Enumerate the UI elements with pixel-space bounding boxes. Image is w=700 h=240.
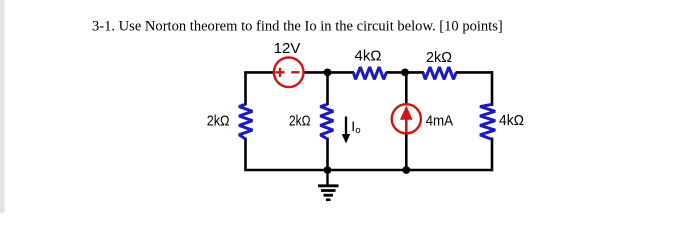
- svg-text:o: o: [355, 125, 360, 136]
- wire top between resistors: [386, 71, 424, 74]
- wire right vertical upper: [491, 71, 494, 106]
- junction node top A: [324, 69, 332, 77]
- svg-text:4mA: 4mA: [426, 112, 454, 129]
- wire current source branch lower: [405, 133, 408, 170]
- resistor R4 2k middle vertical: [320, 104, 333, 139]
- resistor R1 4k horizontal: [353, 67, 386, 79]
- wire current source branch upper: [405, 72, 408, 105]
- svg-text:2kΩ: 2kΩ: [289, 113, 311, 130]
- svg-text:2kΩ: 2kΩ: [426, 49, 452, 66]
- current source I1 4mA: [392, 104, 421, 133]
- ground: [318, 170, 339, 200]
- svg-text:2kΩ: 2kΩ: [207, 113, 230, 130]
- wire middle branch upper: [326, 72, 329, 105]
- svg-text:4kΩ: 4kΩ: [499, 112, 524, 129]
- junction node top B: [401, 69, 409, 77]
- wire bottom: [244, 169, 492, 172]
- wire middle branch lower: [326, 138, 329, 171]
- wire left vertical: [244, 72, 247, 105]
- wire right vertical lower: [491, 138, 494, 172]
- wire top from source to right corner: [305, 71, 355, 74]
- wire top right segment: [456, 71, 492, 74]
- voltage source V1 12V: [274, 58, 304, 88]
- wire left vertical lower: [244, 138, 247, 171]
- junction node bottom C: [324, 166, 332, 174]
- svg-text:12V: 12V: [274, 40, 301, 57]
- resistor R5 4k right vertical: [480, 104, 495, 139]
- Io arrow: [342, 117, 350, 144]
- svg-text:4kΩ: 4kΩ: [355, 48, 382, 65]
- junction node bottom D: [402, 166, 410, 174]
- resistor R2 2k horizontal: [423, 67, 456, 79]
- wire top-left segment: [244, 71, 273, 74]
- svg-text:3-1. Use Norton theorem to fin: 3-1. Use Norton theorem to find the Io i…: [92, 19, 503, 35]
- resistor R3 2k left vertical: [239, 104, 252, 139]
